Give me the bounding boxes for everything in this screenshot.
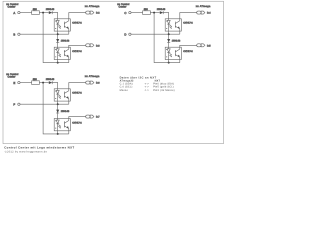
diode D4 1N4148 (series, channel 2) [167, 34, 181, 47]
wire return rail (node X1 to OK2 emitter) [43, 13, 69, 63]
svg-text:1N4148: 1N4148 [61, 40, 70, 43]
junction bottom rail / OK2 cathode [57, 62, 59, 64]
wire OK6 cathode to bottom rail [57, 131, 59, 134]
optocoupler OK1 CNY17-2 (channel 1) [54, 19, 70, 31]
wire E to R3 [20, 82, 32, 84]
wire OK4 collector to pin D.5 [180, 45, 197, 47]
title block text [4, 146, 74, 154]
connector pin D.4 [197, 11, 205, 14]
wire D5 to OK5 anode [52, 83, 58, 89]
svg-text:Pin3 (rot Masse): Pin3 (rot Masse) [153, 89, 175, 92]
wire OK2 cathode to bottom rail [57, 60, 59, 63]
wire R3 to node X3 [39, 82, 48, 84]
note table: I2C connection ATmega32 <-> NXT [120, 76, 175, 91]
junction node D [168, 33, 170, 35]
wire OK6 collector to pin D.7 [69, 117, 86, 119]
connector pin D.5 [197, 44, 205, 47]
svg-text:1N4148: 1N4148 [172, 40, 181, 43]
svg-text:CNY17-2: CNY17-2 [183, 22, 193, 25]
wire F bus [20, 103, 69, 105]
svg-text:1N4148: 1N4148 [157, 8, 166, 11]
svg-text:A: A [13, 11, 15, 15]
junction node X1 [42, 12, 44, 14]
connector pin D.6 [86, 81, 94, 84]
svg-text:F: F [13, 103, 15, 107]
connector pin D.2 [86, 11, 94, 14]
connector pin D.3 [86, 44, 94, 47]
wire OK5 cathode down to node F [57, 101, 59, 104]
svg-text:CNY17-2: CNY17-2 [72, 121, 82, 124]
terminal F (input pad) [13, 103, 20, 107]
junction node B [57, 33, 59, 35]
svg-text:680: 680 [33, 8, 38, 11]
wire OK2 collector to pin D.3 [69, 45, 86, 47]
terminal A (input pad) [13, 11, 20, 15]
optocoupler OK3 CNY17-2 (channel 1) [165, 19, 181, 31]
optocoupler OK4 CNY17-2 (channel 2) [165, 47, 181, 59]
svg-text:CNY17-2: CNY17-2 [72, 50, 82, 53]
wire A to R1 [20, 12, 32, 14]
junction bottom rail / OK4 cathode [168, 62, 170, 64]
svg-text:E: E [13, 81, 15, 85]
junction bottom rail / OK6 cathode [57, 133, 59, 135]
net label: zu Control Center (block 2) [117, 3, 129, 8]
svg-text:D: D [124, 33, 126, 37]
wire R2 to node X2 [150, 12, 159, 14]
svg-text:B: B [13, 33, 15, 37]
svg-text:680: 680 [144, 8, 149, 11]
svg-text:1N4148: 1N4148 [61, 110, 70, 113]
wire OK3 collector to pin D.4 [180, 13, 197, 19]
svg-text:1N4148: 1N4148 [46, 78, 55, 81]
svg-text:zu ATmega: zu ATmega [85, 5, 100, 8]
terminal D (input pad) [124, 33, 131, 37]
terminal E (input pad) [13, 81, 20, 85]
diode D2 1N4148 (series, channel 2) [56, 34, 70, 47]
svg-text:C: C [124, 11, 126, 15]
diode D6 1N4148 (series, channel 2) [56, 104, 70, 118]
wire D bus [131, 33, 180, 35]
wire C to R2 [131, 12, 143, 14]
resistor R1 value 680 [32, 8, 40, 14]
wire B bus [20, 33, 69, 35]
net label: zu Control Center (block 1) [6, 3, 18, 8]
wire return rail (node X2 to OK4 emitter) [154, 13, 180, 63]
diode D3 1N4148 (series, channel 1) [157, 8, 166, 14]
wire OK5 collector to pin D.6 [69, 83, 86, 89]
svg-text:zu ATmega: zu ATmega [196, 5, 211, 8]
resistor R3 value 680 [32, 78, 40, 84]
wire OK3 emitter down to node D [179, 31, 181, 34]
svg-text:1N4148: 1N4148 [46, 8, 55, 11]
wire OK2 emitter to bottom rail [68, 60, 70, 63]
net label: zu Control Center (block 3) [6, 73, 18, 78]
wire R1 to node X1 [39, 12, 48, 14]
wire OK1 collector to pin D.2 [69, 13, 86, 19]
svg-text:Masse: Masse [120, 89, 129, 92]
svg-text:Center: Center [8, 6, 16, 9]
wire OK6 emitter to bottom rail [68, 131, 70, 134]
wire return rail (node X3 to OK6 emitter) [43, 83, 69, 134]
svg-text:CNY17-2: CNY17-2 [72, 92, 82, 95]
optocoupler OK6 CNY17-2 (channel 2) [54, 119, 70, 131]
terminal B (input pad) [13, 33, 20, 37]
wire D1 to OK1 anode [52, 13, 58, 19]
svg-text:Center: Center [8, 76, 16, 79]
wire OK4 emitter to bottom rail [179, 60, 181, 63]
wire OK1 cathode down to node B [57, 31, 59, 34]
svg-text:Control Center mit Lego mindst: Control Center mit Lego mindstorms NXT [4, 146, 74, 150]
wire OK5 emitter down to node F [68, 101, 70, 104]
terminal C (input pad) [124, 11, 131, 15]
svg-text:zu ATmega: zu ATmega [85, 75, 100, 78]
diode D1 1N4148 (series, channel 1) [46, 8, 55, 14]
svg-text:<->: <-> [145, 89, 150, 92]
svg-text:CNY17-2: CNY17-2 [72, 22, 82, 25]
optocoupler OK2 CNY17-2 (channel 2) [54, 47, 70, 59]
junction node F [57, 103, 59, 105]
svg-text:Center: Center [119, 6, 127, 9]
wire OK1 emitter down to node B [68, 31, 70, 34]
junction node X3 [42, 82, 44, 84]
connector pin D.7 [86, 115, 94, 118]
frame border [3, 1, 224, 143]
wire OK3 cathode down to node D [168, 31, 170, 34]
junction node X2 [153, 12, 155, 14]
optocoupler OK5 CNY17-2 (channel 1) [54, 89, 70, 101]
resistor R2 value 680 [143, 8, 151, 14]
svg-text:CNY17-2: CNY17-2 [183, 50, 193, 53]
svg-text:680: 680 [33, 78, 38, 81]
svg-text:©2012 by www.heggemann.de: ©2012 by www.heggemann.de [5, 150, 48, 153]
wire D3 to OK3 anode [163, 13, 169, 19]
diode D5 1N4148 (series, channel 1) [46, 78, 55, 84]
wire OK4 cathode to bottom rail [168, 60, 170, 63]
